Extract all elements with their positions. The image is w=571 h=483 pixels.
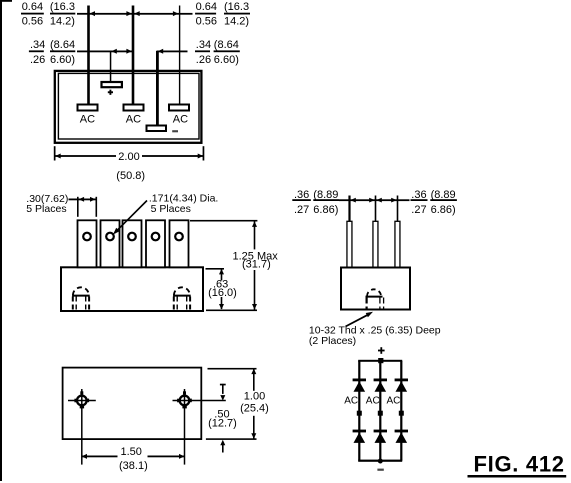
diode D5: [374, 430, 387, 443]
top view body inner rect: [58, 73, 199, 139]
svg-text:AC: AC: [387, 396, 401, 407]
svg-text:(25.4): (25.4): [240, 402, 269, 414]
hidden thread hole right (front view): [173, 287, 191, 310]
svg-text:5 Places: 5 Places: [151, 203, 191, 215]
side view pin 2: [373, 221, 378, 267]
side view pin 1: [347, 221, 352, 267]
arrow 1.50 left: [82, 454, 88, 459]
svg-text:.34: .34: [196, 39, 211, 51]
dimension 1.00 line upper: [253, 369, 255, 391]
front view body: [61, 267, 203, 311]
svg-text:(8.64: (8.64: [50, 39, 75, 51]
arrow 1.25 up: [252, 221, 257, 227]
top view body outer rect: [55, 71, 202, 143]
svg-text:AC: AC: [366, 396, 380, 407]
label - terminal: [377, 469, 383, 471]
svg-text:.36: .36: [294, 189, 309, 201]
dimension .30 ext line right: [96, 197, 98, 217]
dimension 1.25 top ext line: [190, 220, 257, 222]
blade hole 3: [128, 233, 136, 241]
arrow .63 up: [219, 269, 224, 275]
arrow .63 down: [219, 304, 224, 310]
svg-text:14.2): 14.2): [50, 16, 75, 28]
node AC2 junction square: [378, 411, 383, 416]
svg-text:(16.0): (16.0): [208, 287, 237, 299]
side view ext line pin1: [348, 196, 350, 222]
arrow row2 at + lead: [111, 49, 117, 54]
wire + top rail: [358, 360, 402, 362]
dimension 1.50 line: [82, 456, 118, 458]
dimension .63 line upper: [221, 270, 223, 281]
dimension 2.00 ext tick right: [203, 146, 205, 160]
mounting hole right: [173, 389, 226, 465]
dimension 1.00 line lower: [253, 416, 255, 439]
arrow .171: [113, 228, 120, 235]
arrow .50 up: [220, 440, 225, 446]
blade hole 2: [106, 233, 114, 241]
svg-text:(16.3: (16.3: [224, 1, 249, 13]
side view ext line pin2: [375, 196, 377, 222]
svg-text:FIG. 412: FIG. 412: [474, 452, 565, 477]
node - junction dot: [378, 459, 383, 464]
side view dim text right: .36/.27 (8.89/6.86): [411, 189, 457, 216]
svg-text:.27: .27: [411, 204, 426, 216]
side view body: [341, 268, 410, 310]
wire AC1 lead line: [87, 6, 90, 105]
leader 10-32: [346, 314, 370, 326]
svg-text:.36: .36: [411, 189, 426, 201]
arrow 10-32: [366, 312, 373, 317]
dimension row1 text right: 0.64/0.56 (16.3/14.2): [195, 1, 250, 28]
terminal blade 5: [170, 220, 189, 267]
arrow .50 down: [220, 395, 225, 401]
label + terminal: [378, 347, 385, 354]
dimension .30 line: [69, 199, 97, 201]
svg-text:0.64: 0.64: [196, 1, 217, 13]
node + junction square: [378, 358, 383, 363]
svg-text:6.86): 6.86): [313, 204, 338, 216]
arrow side at pin3: [391, 198, 397, 203]
side view dim line: [339, 199, 410, 201]
svg-text:AC: AC: [173, 114, 188, 126]
dimension line row1: [77, 13, 193, 15]
wire branch 3: [400, 361, 402, 461]
dimension row2 text right: .34/.26 (8.64/6.60): [195, 39, 240, 66]
wire branch 2: [379, 361, 381, 461]
terminal blade 4: [146, 220, 165, 267]
dimension 1.25 bottom ext line: [206, 310, 257, 312]
arrow row1 at AC2 right: [134, 11, 140, 16]
diode D2: [374, 379, 387, 392]
arrow side at pin2 right: [376, 198, 382, 203]
arrow 1.00 down: [251, 433, 256, 439]
terminal blade 2: [101, 220, 120, 267]
svg-text:AC: AC: [80, 114, 95, 126]
terminal blade 1: [78, 220, 97, 267]
arrow row2 at AC2: [126, 49, 131, 54]
hidden thread hole left (front view): [72, 287, 90, 310]
arrow side at pin2 left: [369, 198, 375, 203]
svg-text:(50.8): (50.8): [116, 170, 145, 182]
arrow row1 at AC3: [173, 11, 179, 16]
terminal AC1 (top view): [78, 105, 98, 111]
bottom view body: [63, 368, 202, 440]
figure title underline: [468, 475, 567, 478]
blade hole 4: [152, 233, 160, 241]
node AC3 junction square: [399, 411, 404, 416]
svg-text:(38.1): (38.1): [119, 460, 148, 472]
wire AC2 lead line: [132, 6, 135, 105]
arrow 1.25 down: [252, 304, 257, 310]
side view ext line pin3: [397, 196, 399, 222]
dimension .50 lower line: [222, 442, 224, 453]
diode D1: [353, 379, 366, 392]
arrow row1 at AC2 left: [126, 11, 131, 16]
svg-text:0.56: 0.56: [22, 16, 43, 28]
svg-text:.26: .26: [196, 54, 211, 66]
svg-text:AC: AC: [126, 114, 141, 126]
svg-text:(2 Places): (2 Places): [309, 335, 356, 347]
mounting hole left: [68, 389, 96, 465]
terminal + (top view): [102, 82, 122, 87]
svg-text:6.60): 6.60): [214, 54, 239, 66]
dimension .63 line lower: [221, 297, 223, 309]
svg-text:0.56: 0.56: [196, 16, 217, 28]
dimension .30 ext line left: [77, 197, 79, 217]
arrow side at pin1: [350, 198, 356, 203]
arrow 1.00 up: [251, 369, 256, 375]
svg-text:0.64: 0.64: [22, 1, 43, 13]
hidden thread hole (side view): [366, 289, 384, 308]
arrow .30 right: [90, 197, 96, 202]
svg-text:6.60): 6.60): [50, 54, 75, 66]
arrow 1.50 right: [179, 454, 185, 459]
svg-text:(16.3: (16.3: [50, 1, 75, 13]
side view pin 3: [395, 221, 400, 267]
dimension 1.25 line upper: [254, 221, 256, 249]
wire branch 1: [358, 361, 360, 461]
dimension .50 upper tick: [220, 384, 226, 386]
dimension 1.00 top ext: [208, 368, 257, 370]
svg-text:6.86): 6.86): [431, 204, 456, 216]
dimension 1.25 line lower: [254, 270, 256, 310]
dimension line row2 left segment: [77, 51, 133, 53]
side view dim text left: .36/.27 (8.89/6.86): [292, 189, 339, 216]
terminal - (top view): [147, 126, 167, 132]
svg-text:5 Places: 5 Places: [26, 203, 66, 215]
dimension row2 text left: .34/.26 (8.64/6.60): [29, 39, 75, 66]
leader .171: [115, 201, 148, 234]
arrow row1 at AC1: [90, 11, 96, 16]
svg-text:AC: AC: [344, 396, 358, 407]
dimension 1.00 bottom ext: [206, 438, 257, 440]
blade hole 5: [175, 233, 183, 241]
diode D6: [395, 430, 408, 443]
page border left edge: [0, 0, 2, 481]
svg-text:.34: .34: [30, 39, 45, 51]
label +: [108, 90, 113, 95]
svg-text:(31.7): (31.7): [242, 259, 271, 271]
dimension 2.00 line: [55, 155, 116, 157]
wire - bottom rail: [358, 460, 402, 462]
arrow 2.00 left: [55, 154, 61, 159]
wire AC3 lead line: [179, 6, 180, 105]
svg-text:.26: .26: [30, 54, 45, 66]
arrow row2 at - lead: [158, 49, 164, 54]
dimension 2.00 ext tick left: [54, 146, 56, 160]
svg-text:(8.89: (8.89: [431, 189, 456, 201]
svg-text:2.00: 2.00: [118, 151, 139, 163]
terminal AC2 (top view): [124, 105, 144, 111]
svg-text:.27: .27: [294, 204, 309, 216]
svg-text:(12.7): (12.7): [208, 417, 237, 429]
arrow 2.00 right: [198, 154, 204, 159]
dimension row1 text left: 0.64/0.56 (16.3/14.2): [21, 1, 75, 28]
wire + lead line: [110, 51, 112, 82]
svg-text:14.2): 14.2): [224, 16, 249, 28]
page border top-left mark: [0, 0, 12, 2]
wire - lead line: [156, 51, 159, 126]
arrow .30 left: [79, 197, 85, 202]
svg-text:(8.89: (8.89: [313, 189, 338, 201]
diode D4: [353, 430, 366, 443]
label -: [172, 130, 178, 132]
svg-text:1.00: 1.00: [244, 391, 265, 403]
terminal blade 3: [123, 220, 142, 267]
blade hole 1: [83, 233, 91, 241]
node AC1 junction square: [357, 411, 362, 416]
terminal AC3 (top view): [169, 105, 189, 111]
dimension .63 top ext line: [206, 268, 225, 270]
diode D3: [395, 379, 408, 392]
dimension line row2 right segment: [157, 51, 188, 53]
dimension .50 upper line: [222, 384, 224, 394]
svg-text:1.50: 1.50: [121, 446, 142, 458]
svg-text:(8.64: (8.64: [214, 39, 239, 51]
